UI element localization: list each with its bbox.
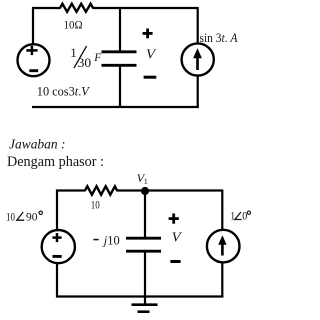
resistor R1: [60, 4, 93, 12]
node V1 junction dot: [141, 187, 149, 195]
current source Is1 sin3t: [182, 43, 214, 75]
svg-text:Jawaban :: Jawaban :: [9, 136, 66, 151]
svg-text:1: 1: [70, 45, 77, 60]
svg-text:V: V: [146, 48, 157, 63]
wire right upper (circuit 1): [197, 7, 199, 44]
svg-text:90: 90: [26, 209, 38, 223]
label −j10: [93, 233, 119, 247]
wire left upper (circuit 1): [32, 7, 34, 45]
wire left upper (circuit 2): [56, 190, 58, 231]
wire top-left segment (circuit 1): [32, 7, 61, 9]
ground: [132, 297, 158, 312]
voltage source Vs2 10∠90°: [42, 230, 75, 263]
label + (capacitor polarity, circuit 1): [143, 29, 153, 39]
label − (capacitor polarity, circuit 1): [144, 76, 157, 79]
label 1∠0°: [230, 209, 250, 223]
resistor R2: [85, 186, 117, 194]
svg-text:30: 30: [78, 56, 92, 70]
svg-text:sin 3t. A: sin 3t. A: [200, 31, 238, 45]
wire left lower (circuit 2): [56, 264, 58, 298]
label 10∠90°: [6, 209, 42, 223]
svg-text:10 cos3t.V: 10 cos3t.V: [37, 85, 90, 99]
wire mid upper (circuit 1): [119, 7, 121, 52]
svg-text:10: 10: [6, 209, 15, 223]
svg-text:0: 0: [242, 209, 247, 223]
wire mid lower (circuit 1): [119, 65, 121, 108]
svg-text:j10: j10: [102, 233, 120, 247]
wire mid lower (circuit 2): [144, 251, 146, 297]
svg-text:10: 10: [91, 198, 100, 212]
wire right upper (circuit 2): [221, 190, 223, 231]
label 1/30 F: [70, 45, 102, 70]
svg-text:1: 1: [144, 177, 148, 186]
wire top-right segment (circuit 1): [93, 7, 198, 9]
svg-text:F: F: [93, 50, 102, 64]
wire top-left segment (circuit 2): [56, 189, 86, 191]
label − (capacitor polarity, circuit 2): [170, 260, 180, 263]
svg-text:Dengam phasor :: Dengam phasor :: [7, 154, 104, 170]
wire mid upper (circuit 2): [144, 191, 146, 239]
wire bottom (circuit 2): [56, 295, 223, 297]
capacitor C1: [102, 52, 137, 66]
wire right lower (circuit 1): [197, 76, 199, 108]
svg-text:1: 1: [230, 209, 235, 223]
wire bottom (circuit 1): [32, 106, 199, 108]
wire right lower (circuit 2): [221, 263, 223, 298]
voltage source Vs1 10cos3t: [18, 44, 50, 76]
label + (capacitor polarity, circuit 2): [169, 214, 179, 224]
label V1: [137, 171, 148, 186]
svg-text:10Ω: 10Ω: [64, 17, 83, 31]
capacitor C2: [126, 238, 161, 251]
wire top-right segment (circuit 2): [117, 189, 223, 191]
current source Is2 1∠0°: [207, 230, 240, 263]
